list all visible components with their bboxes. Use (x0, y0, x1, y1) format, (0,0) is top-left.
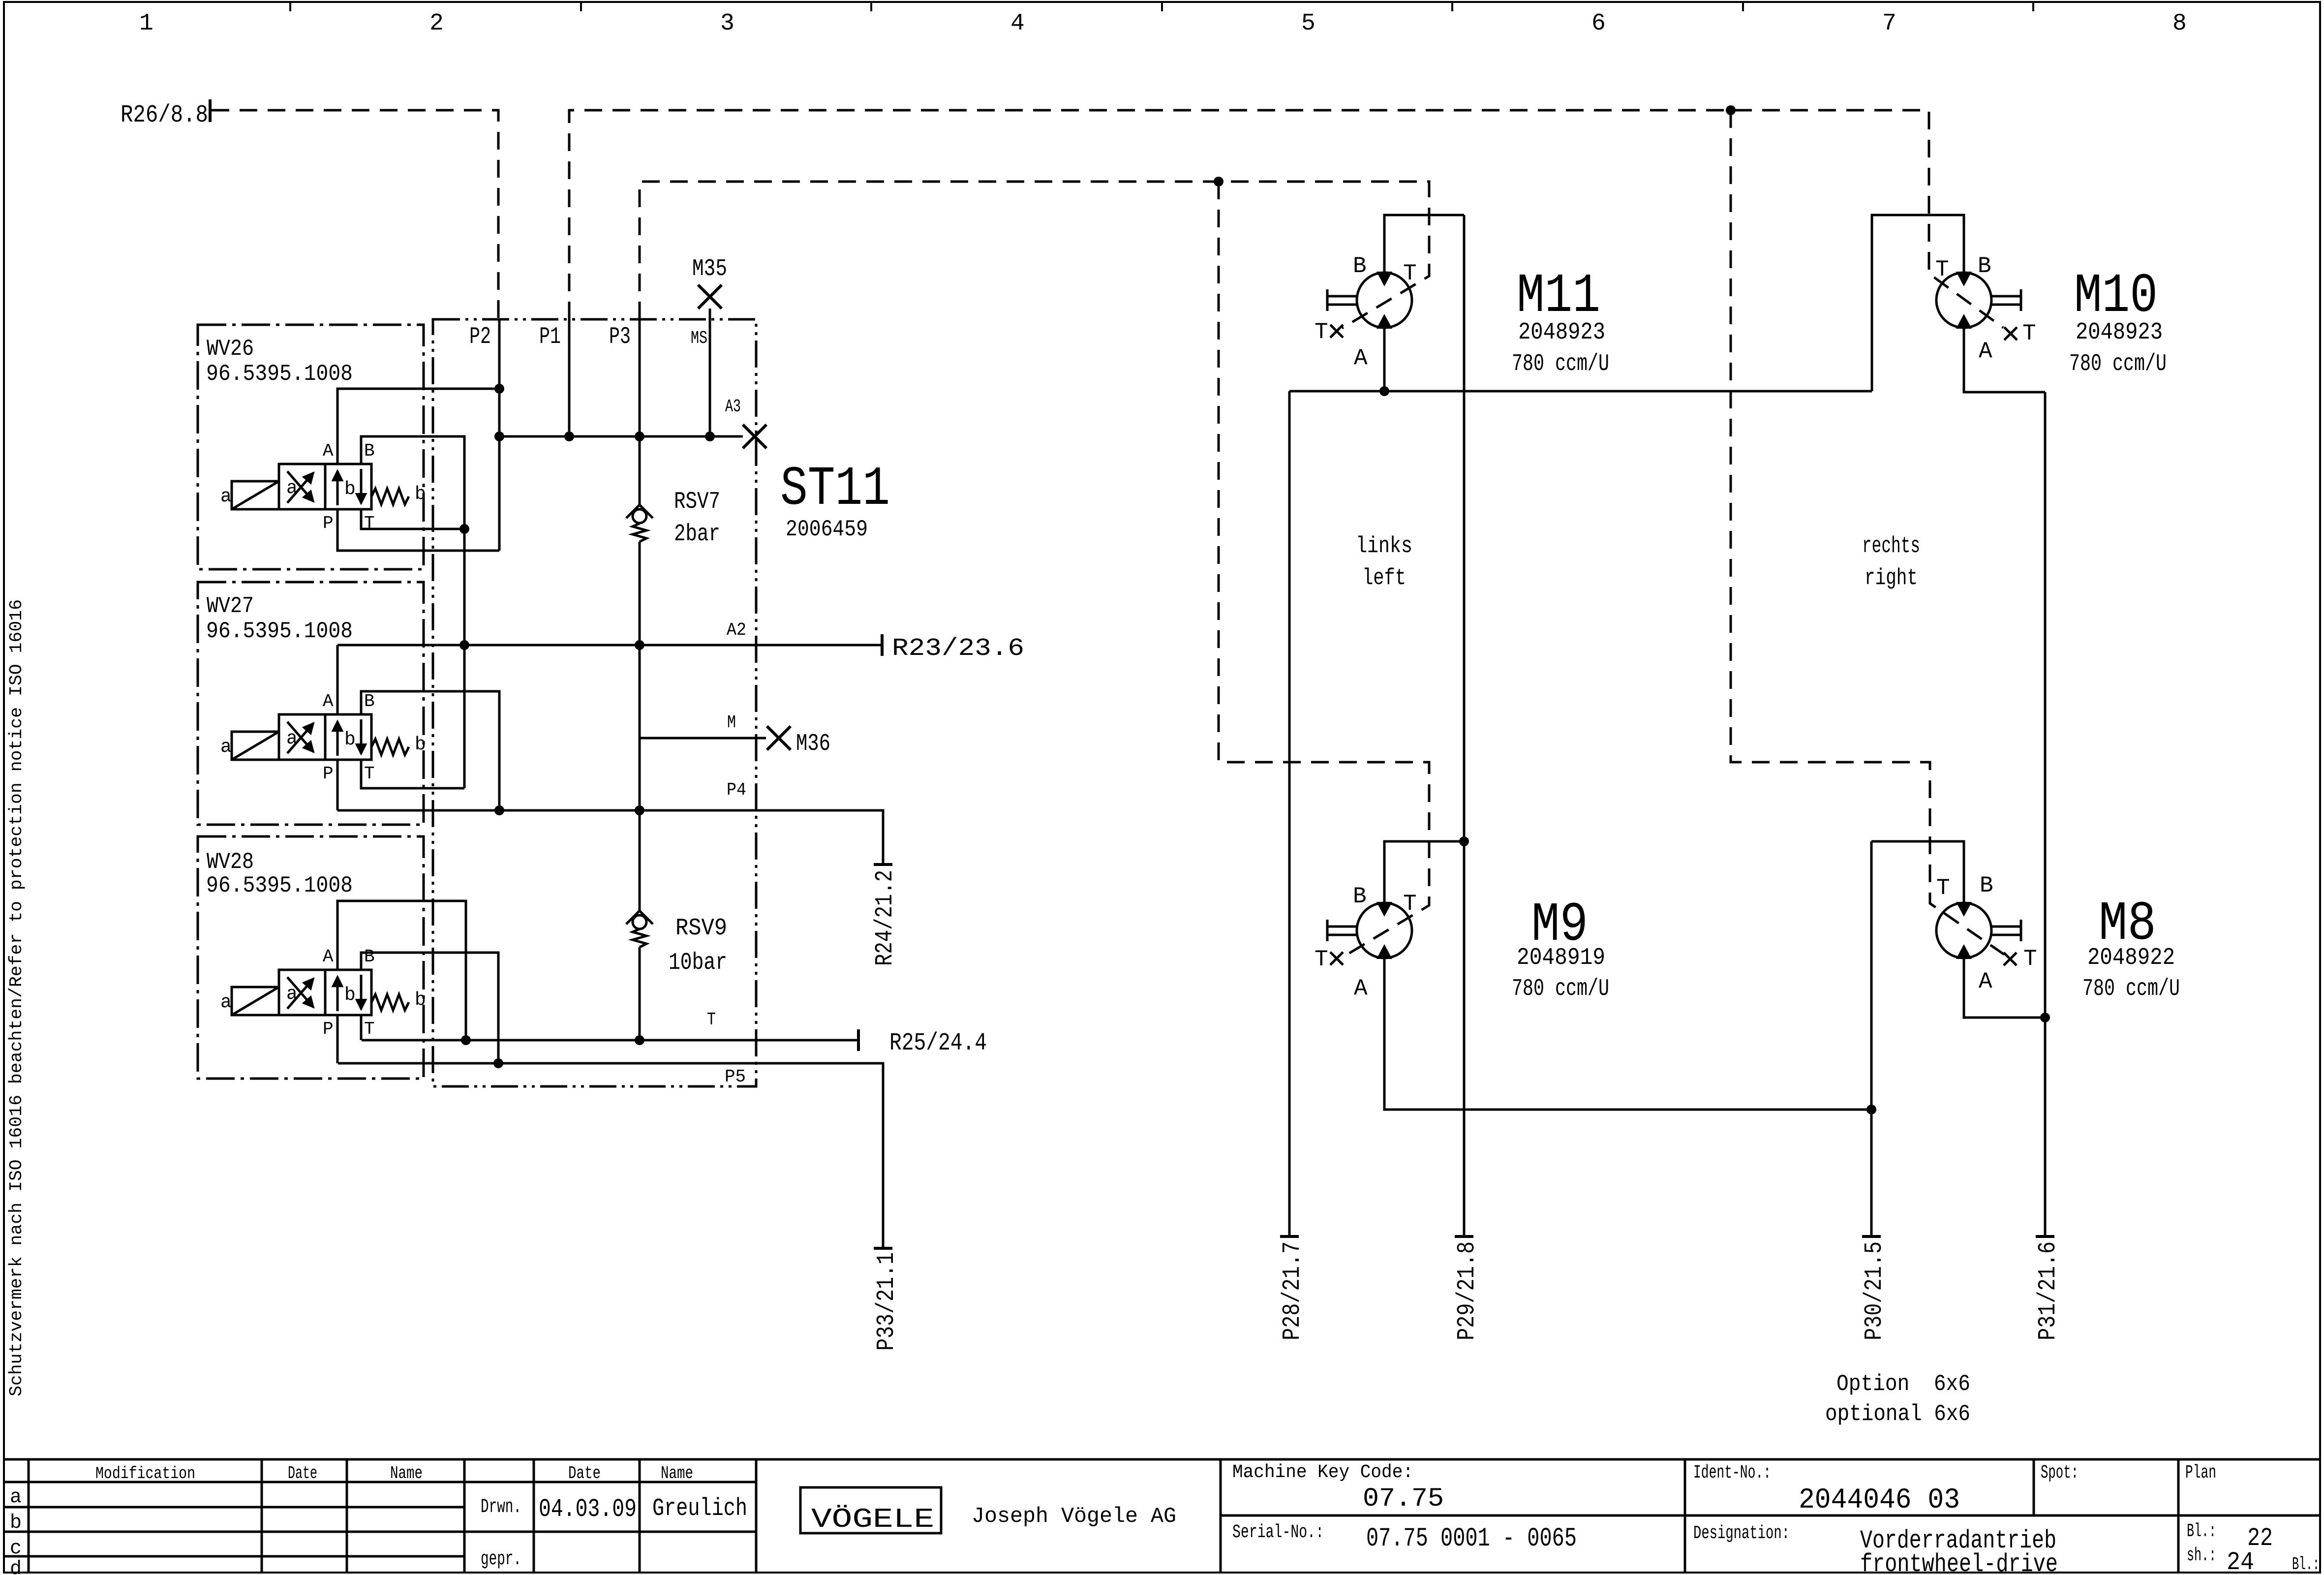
svg-text:M10: M10 (2074, 265, 2158, 328)
svg-text:WV26: WV26 (207, 336, 254, 362)
svg-text:ST11: ST11 (780, 458, 890, 521)
svg-text:a: a (286, 478, 298, 499)
svg-text:Spot:: Spot: (2041, 1462, 2079, 1483)
svg-text:96.5395.1008: 96.5395.1008 (206, 873, 353, 898)
svg-text:WV27: WV27 (207, 593, 254, 619)
svg-text:a: a (220, 992, 232, 1013)
svg-text:RSV7: RSV7 (674, 489, 720, 515)
svg-text:T: T (1403, 261, 1417, 286)
svg-text:RSV9: RSV9 (675, 915, 727, 942)
enclosure WV26 (dash-dot box) (198, 325, 424, 569)
logo VOGELE (800, 1487, 1176, 1535)
wire WV26 T loop (361, 509, 469, 534)
svg-text:b: b (344, 985, 356, 1006)
svg-text:4: 4 (1010, 10, 1025, 37)
svg-text:Option 6x6: Option 6x6 (1836, 1371, 1970, 1397)
reference R26/8.8 (pilot supply from sheet 8.8) (121, 99, 210, 129)
wire P31 down (2044, 392, 2047, 1236)
svg-text:M11: M11 (1517, 265, 1600, 328)
title block sheet numbers (2187, 1521, 2320, 1575)
wire WV26 B loop (361, 436, 464, 529)
svg-text:24: 24 (2227, 1548, 2254, 1575)
svg-text:M35: M35 (692, 256, 727, 282)
svg-text:780 ccm/U: 780 ccm/U (1512, 976, 1609, 1002)
svg-text:P33/21.1: P33/21.1 (873, 1252, 901, 1351)
title block machine key code (1232, 1462, 1444, 1514)
wire WV26 P to P2 (337, 509, 499, 551)
label rechts/right (1862, 533, 1920, 591)
svg-text:Joseph Vögele AG: Joseph Vögele AG (972, 1504, 1176, 1529)
svg-text:R23/23.6: R23/23.6 (892, 635, 1024, 663)
svg-text:07.75 0001 - 0065: 07.75 0001 - 0065 (1366, 1524, 1577, 1554)
svg-text:R26/8.8: R26/8.8 (121, 101, 208, 129)
wire T line to R25 (362, 1010, 858, 1045)
svg-text:Date: Date (288, 1463, 317, 1483)
wire WV28 B loop to P5 (361, 953, 498, 1063)
svg-text:b: b (10, 1512, 22, 1534)
svg-text:T: T (1403, 891, 1417, 917)
svg-text:2006459: 2006459 (786, 517, 868, 542)
motor M9 (1315, 884, 1609, 1002)
svg-text:P5: P5 (725, 1067, 746, 1087)
wire WV27 P to P4 (336, 760, 339, 810)
svg-text:Designation:: Designation: (1693, 1523, 1790, 1544)
svg-text:B: B (364, 441, 375, 461)
svg-text:frontwheel-drive: frontwheel-drive (1860, 1550, 2058, 1575)
svg-text:B: B (364, 691, 375, 711)
test point A3 (blocked port X) (743, 425, 766, 448)
svg-text:P30/21.5: P30/21.5 (1861, 1241, 1889, 1340)
svg-text:Serial-No.:: Serial-No.: (1232, 1522, 1324, 1543)
wire M line to test point M36 (640, 712, 766, 738)
wire WV26 A to P2 (337, 384, 504, 464)
svg-text:Plan: Plan (2185, 1462, 2216, 1483)
svg-text:b: b (415, 484, 426, 505)
svg-text:links: links (1356, 533, 1412, 559)
svg-text:A: A (323, 441, 334, 461)
svg-text:96.5395.1008: 96.5395.1008 (206, 618, 353, 644)
wire M8 A to P31 (1964, 958, 2050, 1022)
wire WV27 B loop to P4 (361, 691, 499, 810)
wire dashed R26 to P1 and to M10 (569, 110, 2003, 328)
svg-text:8: 8 (2172, 10, 2187, 37)
svg-text:VÖGELE: VÖGELE (811, 1504, 934, 1535)
junction on dashed at x3518 (1726, 105, 1736, 115)
node A3 bus (494, 397, 743, 441)
reference P30/21.5 (1861, 1236, 1889, 1340)
svg-text:a: a (286, 728, 298, 749)
svg-text:T: T (1935, 257, 1949, 282)
wire WV27 T loop (361, 760, 464, 788)
wire P4 line to R24 (337, 780, 883, 865)
svg-text:P: P (323, 1019, 334, 1039)
motor M11 (1315, 253, 1609, 377)
svg-text:A: A (323, 691, 334, 711)
svg-text:96.5395.1008: 96.5395.1008 (206, 361, 353, 387)
title block header labels (95, 1463, 693, 1483)
svg-text:A2: A2 (727, 620, 746, 640)
wire dashed down-right to M8 case drain (1731, 110, 2004, 955)
svg-text:P2: P2 (469, 324, 491, 350)
svg-text:P4: P4 (727, 780, 746, 800)
svg-text:2: 2 (429, 10, 444, 37)
title block ident no (1693, 1462, 1960, 1516)
svg-text:B: B (1353, 253, 1367, 279)
wire M10 A to P31 (1964, 328, 2045, 392)
label Option 6x6 (1825, 1371, 1970, 1427)
svg-text:P29/21.8: P29/21.8 (1453, 1241, 1481, 1340)
svg-text:T: T (707, 1010, 716, 1030)
wire M11 B to P29 (1384, 215, 1464, 273)
svg-text:WV28: WV28 (207, 849, 254, 875)
wire left A-bus (M11-A to M10-B) (1289, 390, 1872, 393)
svg-text:Schutzvermerk nach ISO 16016 b: Schutzvermerk nach ISO 16016 beachten/Re… (6, 599, 27, 1396)
wire WV28 T to T line (360, 1015, 363, 1040)
svg-text:P3: P3 (609, 324, 631, 350)
wire M8 B to P30 (1871, 841, 1964, 903)
motor M10 (1935, 253, 2167, 377)
svg-text:A: A (1979, 969, 1992, 994)
svg-text:Date: Date (568, 1463, 601, 1483)
svg-text:R25/24.4: R25/24.4 (889, 1029, 987, 1057)
svg-text:Greulich: Greulich (652, 1495, 747, 1523)
svg-text:rechts: rechts (1862, 533, 1920, 559)
svg-text:sh.:: sh.: (2187, 1545, 2216, 1566)
svg-text:A: A (1354, 345, 1368, 371)
svg-text:a: a (220, 486, 232, 507)
svg-text:A: A (1979, 339, 1992, 364)
valve WV28 (4/2 solenoid valve) (220, 947, 426, 1039)
svg-text:P31/21.6: P31/21.6 (2034, 1241, 2062, 1340)
wire P28 down (1288, 391, 1291, 1236)
wire P29 down (1463, 215, 1466, 1236)
svg-text:b: b (344, 729, 356, 750)
svg-text:Name: Name (390, 1463, 423, 1483)
wire tie WV26-BT to A2 and WV27-T (463, 529, 466, 788)
check valve RSV9 10bar (626, 911, 727, 976)
wire dashed R26 to P2 (212, 110, 498, 319)
wire P1 vertical (539, 319, 569, 436)
svg-text:P: P (323, 513, 334, 533)
wire P30 down (1870, 841, 1873, 1236)
wire M9 B to P29 (1384, 836, 1469, 903)
svg-text:b: b (415, 734, 426, 755)
wire dashed P3 pilot to M11 (640, 182, 1429, 328)
wire dashed down-left to M9 case drain (1219, 182, 1429, 957)
svg-text:6: 6 (1591, 10, 1606, 37)
reference P33/21.1 (873, 1248, 901, 1351)
svg-text:b: b (415, 989, 426, 1011)
label links/left (1356, 533, 1412, 591)
junction on dashed at x2477 (1214, 177, 1223, 186)
svg-text:Ident-No.:: Ident-No.: (1693, 1462, 1771, 1483)
svg-text:04.03.09: 04.03.09 (539, 1495, 637, 1524)
valve WV26 (4/2 solenoid valve) (220, 441, 426, 533)
reference R23/23.6 (882, 634, 1024, 663)
svg-text:A: A (1354, 976, 1368, 1001)
svg-text:M: M (727, 712, 736, 733)
svg-text:b: b (344, 479, 356, 500)
svg-text:T: T (2023, 946, 2037, 972)
reference R25/24.4 (858, 1029, 987, 1057)
title block designation (1693, 1523, 2058, 1575)
reference P29/21.8 (1453, 1236, 1481, 1340)
svg-text:Bl.:: Bl.: (2187, 1521, 2216, 1542)
wire P3 vertical (609, 319, 640, 1040)
svg-text:5: 5 (1301, 10, 1315, 37)
svg-text:T: T (1936, 875, 1950, 901)
svg-text:B: B (1980, 873, 1993, 898)
svg-text:gepr.: gepr. (481, 1548, 521, 1571)
svg-text:d: d (10, 1558, 22, 1575)
svg-text:a: a (286, 984, 298, 1005)
svg-text:2048923: 2048923 (1518, 319, 1605, 346)
enclosure WV28 (dash-dot box) (198, 836, 424, 1079)
svg-text:T: T (2022, 321, 2036, 346)
wire A2 line to R23 (337, 620, 882, 650)
svg-text:Machine Key Code:: Machine Key Code: (1232, 1462, 1413, 1483)
check valve RSV7 2bar (626, 489, 720, 548)
svg-text:10bar: 10bar (669, 950, 727, 976)
svg-text:T: T (1315, 319, 1328, 345)
svg-text:right: right (1865, 565, 1918, 591)
wire WV28 P to P5 (336, 1015, 339, 1063)
svg-text:optional 6x6: optional 6x6 (1825, 1401, 1970, 1427)
title block row letters (10, 1486, 22, 1575)
svg-text:780 ccm/U: 780 ccm/U (2082, 976, 2180, 1002)
wire WV27 A to A2 (336, 645, 339, 714)
svg-text:B: B (364, 947, 375, 967)
svg-text:MS: MS (691, 328, 707, 348)
svg-text:Name: Name (661, 1463, 693, 1483)
enclosure WV27 (dash-dot box) (198, 582, 424, 825)
valve WV27 (4/2 solenoid valve) (220, 691, 426, 784)
reference R24/21.2 (871, 865, 899, 966)
svg-text:2048919: 2048919 (1517, 945, 1605, 971)
svg-text:T: T (364, 764, 375, 784)
wire M11 A to bus (1379, 328, 1389, 396)
svg-text:left: left (1362, 565, 1406, 591)
svg-text:a: a (10, 1486, 22, 1509)
svg-text:T: T (364, 513, 375, 533)
svg-text:Bl.:: Bl.: (2292, 1554, 2320, 1575)
svg-text:R24/21.2: R24/21.2 (871, 870, 899, 966)
svg-text:3: 3 (720, 10, 734, 37)
svg-text:2048922: 2048922 (2087, 945, 2175, 971)
svg-text:M36: M36 (796, 731, 830, 757)
reference P28/21.7 (1279, 1236, 1307, 1340)
svg-text:P: P (323, 764, 334, 784)
test point M35 (691, 256, 727, 436)
wire M10 B to A-bus (1872, 215, 1964, 391)
svg-text:780 ccm/U: 780 ccm/U (1512, 351, 1609, 377)
svg-text:780 ccm/U: 780 ccm/U (2069, 351, 2167, 377)
svg-text:P28/21.7: P28/21.7 (1279, 1241, 1307, 1340)
svg-text:c: c (10, 1538, 22, 1560)
svg-text:07.75: 07.75 (1363, 1484, 1444, 1514)
svg-text:Drwn.: Drwn. (481, 1496, 521, 1518)
svg-text:Modification: Modification (95, 1465, 195, 1483)
svg-text:T: T (1315, 947, 1328, 972)
wire M9 A to P30 (1384, 958, 1876, 1114)
svg-text:a: a (220, 737, 232, 758)
svg-text:2bar: 2bar (674, 521, 720, 548)
svg-text:2048923: 2048923 (2076, 319, 2163, 346)
svg-text:A: A (323, 947, 334, 967)
enclosure ST11 subplate (dash-dot-dot box) (433, 319, 890, 1086)
svg-text:7: 7 (1882, 10, 1896, 37)
svg-text:2044046 03: 2044046 03 (1799, 1484, 1960, 1516)
title block (4, 1459, 2320, 1573)
motor M8 (1936, 873, 2180, 1002)
svg-text:A3: A3 (725, 397, 741, 417)
wire P5 line to P33 (338, 1058, 883, 1248)
wire WV28 A to T line (337, 901, 466, 1040)
title block serial no (1232, 1522, 1577, 1554)
title block Drwn row (481, 1495, 747, 1571)
svg-text:B: B (1978, 253, 1991, 279)
wire P2 vertical (469, 319, 499, 551)
svg-text:1: 1 (139, 10, 153, 37)
reference P31/21.6 (2034, 1236, 2062, 1340)
svg-text:B: B (1353, 884, 1367, 909)
test point M36 (767, 726, 830, 757)
svg-text:P1: P1 (539, 324, 561, 350)
svg-text:T: T (364, 1019, 375, 1039)
title block spot / plan (2041, 1462, 2216, 1483)
